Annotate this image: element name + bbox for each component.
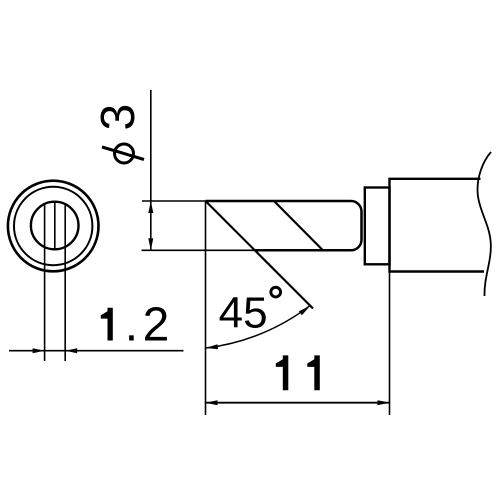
svg-text:3: 3 — [92, 104, 145, 131]
svg-text:.: . — [125, 299, 138, 352]
svg-text:45: 45 — [219, 289, 268, 338]
svg-text:2: 2 — [143, 299, 170, 352]
